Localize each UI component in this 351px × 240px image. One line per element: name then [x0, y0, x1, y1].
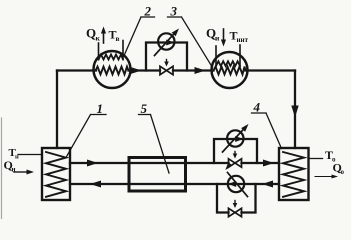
condenser lower coil zigzag: [96, 67, 129, 75]
flow arrow right before evaporator: [195, 67, 206, 74]
label 4 with leader: [253, 100, 261, 115]
flow arrow left on return line near exchanger 4: [262, 181, 273, 188]
svg-text:в: в: [116, 34, 120, 43]
label 5 with leader: [141, 101, 148, 116]
recuperator 5 (middle rectangle): [129, 158, 186, 192]
label To with lead line: [309, 158, 323, 160]
evaporator air lead right: [239, 45, 241, 66]
heat exchanger 2 (condenser circle): [94, 51, 131, 88]
svg-text:1: 1: [97, 101, 104, 116]
wire: supply process line y=163: [70, 162, 279, 164]
evaporator upper coil zigzag: [216, 61, 240, 66]
heat exchanger 1 (left rectangle): [42, 148, 70, 200]
evaporator lower coil zigzag: [214, 67, 246, 75]
wire: return process line y=184: [70, 183, 279, 185]
label Tint: [230, 29, 249, 45]
label Qo with arrow: [333, 161, 345, 177]
svg-text:5: 5: [141, 101, 148, 116]
bypass loop below return regulator: [217, 184, 256, 213]
scan artifact at left edge: [1, 118, 3, 219]
heat exchanger (evaporator circle): [212, 52, 248, 88]
flow arrow right after condenser: [131, 67, 142, 74]
valve actuator arrow: [166, 60, 168, 63]
supply valve actuator arrow: [234, 152, 236, 155]
svg-text:2: 2: [144, 4, 152, 19]
evaporator air lead left: [215, 46, 217, 66]
flow arrow right on supply line before exchanger 4: [263, 160, 274, 167]
svg-text:инт: инт: [237, 36, 249, 44]
valve on return bypass: [229, 208, 242, 216]
condenser air lead right: [122, 41, 124, 60]
condenser upper coil zigzag: [99, 55, 124, 60]
label Qn with arrow: [4, 158, 16, 174]
svg-text:к: к: [96, 34, 101, 43]
wire: top refrigerant line segments y=70.5: [57, 69, 295, 71]
flow arrow left on return line near exchanger 1: [90, 181, 101, 188]
label 2 with leader: [144, 4, 152, 19]
svg-text:и: и: [215, 34, 220, 43]
expansion valve on main line: [160, 66, 173, 74]
svg-text:о: о: [341, 168, 345, 176]
inline regulator on return line: [228, 176, 244, 192]
return bypass valve actuator arrow: [234, 201, 236, 204]
label 3 with leader: [170, 4, 178, 19]
flow arrow down on right riser: [291, 106, 298, 118]
bypass loop above supply valve: [214, 139, 257, 163]
svg-text:3: 3: [170, 4, 178, 19]
label Qk with up arrow: [86, 26, 101, 43]
bypass loop around expansion valve 3: [146, 43, 187, 71]
regulator on supply bypass: [227, 130, 243, 146]
label Qi with down arrow: [206, 26, 220, 43]
condenser air lead left: [98, 43, 100, 60]
wire: left riser x=57: [56, 71, 58, 149]
label Tn with lead line: [9, 147, 20, 161]
valve on supply line: [229, 159, 242, 167]
svg-text:4: 4: [253, 100, 261, 115]
label 1 with leader: [97, 101, 104, 116]
label Tv: [109, 28, 120, 44]
coil zigzag in exchanger 1: [46, 152, 66, 197]
flow arrow right on supply line after exchanger 1: [87, 160, 98, 167]
coil zigzag in exchanger 4: [283, 152, 304, 197]
wire: right riser x=295: [294, 71, 296, 149]
heat exchanger 4 (right rectangle): [279, 148, 309, 200]
regulator (adjustable device) on top bypass: [158, 33, 174, 49]
